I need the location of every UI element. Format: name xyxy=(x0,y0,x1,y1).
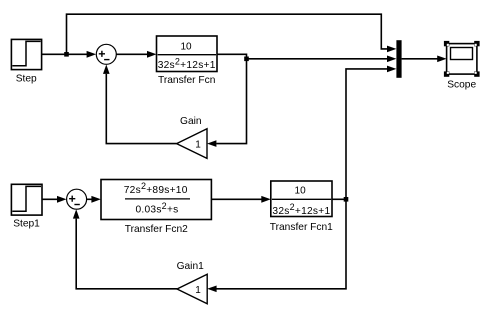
wire Step branch to Mux input 1 xyxy=(67,14,397,54)
svg-text:1: 1 xyxy=(195,139,201,150)
block Transfer Fcn xyxy=(157,36,218,86)
block Scope (selected) xyxy=(447,44,477,91)
wire Transfer Fcn to Gain (feedback) xyxy=(207,54,247,147)
wire Sum to Transfer Fcn xyxy=(116,51,156,58)
svg-text:Transfer Fcn: Transfer Fcn xyxy=(158,75,215,86)
svg-text:Step: Step xyxy=(16,73,37,84)
junction on Step output xyxy=(64,52,69,57)
selection handle Scope bottom-left xyxy=(444,71,449,76)
svg-text:10: 10 xyxy=(295,186,307,197)
gain Gain xyxy=(177,116,207,158)
wire junction to Mux input 3 xyxy=(346,66,396,200)
svg-text:Gain1: Gain1 xyxy=(177,261,205,272)
svg-text:Step1: Step1 xyxy=(13,219,40,230)
block Transfer Fcn1 xyxy=(270,181,333,233)
selection handle Scope top-right xyxy=(474,41,479,46)
wire Transfer Fcn2 to Transfer Fcn1 xyxy=(211,196,270,203)
wire junction to Gain1 (feedback) xyxy=(207,199,346,292)
wire Mux to Scope xyxy=(402,56,447,63)
wire Step to Sum xyxy=(42,51,96,58)
svg-text:10: 10 xyxy=(180,42,192,53)
junction on feedback to Mux input 2 xyxy=(244,57,249,62)
svg-text:Gain: Gain xyxy=(180,116,202,127)
svg-text:Transfer Fcn2: Transfer Fcn2 xyxy=(125,224,188,235)
block Step xyxy=(11,39,41,84)
svg-text:Scope: Scope xyxy=(447,79,476,90)
gain Gain1 xyxy=(177,261,208,304)
wire Gain1 to Sum1 minus input xyxy=(73,209,177,289)
mux Mux xyxy=(396,40,401,78)
wire junction to Mux input 2 xyxy=(247,56,397,63)
svg-text:1: 1 xyxy=(195,285,201,296)
block Step1 xyxy=(11,184,42,229)
junction on Transfer Fcn1 output xyxy=(344,197,349,202)
wire Transfer Fcn1 output to junction xyxy=(332,198,346,200)
sum Sum1 xyxy=(67,189,87,209)
wire Gain to Sum minus input xyxy=(103,65,177,144)
selection handle Scope top-left xyxy=(444,41,449,46)
sum Sum xyxy=(96,44,116,64)
wire Step1 to Sum1 xyxy=(42,196,67,203)
svg-text:Transfer Fcn1: Transfer Fcn1 xyxy=(270,222,333,233)
wire Sum1 to Transfer Fcn2 xyxy=(87,196,101,203)
selection handle Scope bottom-right xyxy=(474,71,479,76)
block Transfer Fcn2 xyxy=(101,180,211,236)
